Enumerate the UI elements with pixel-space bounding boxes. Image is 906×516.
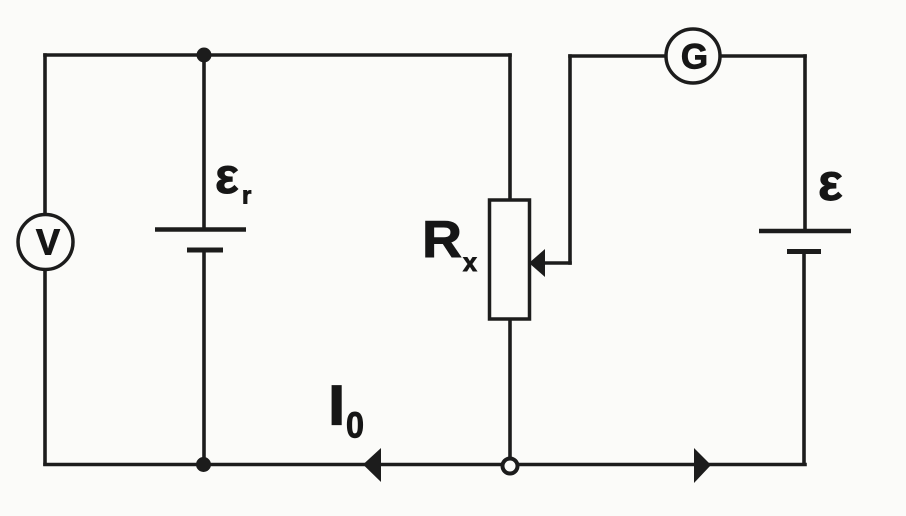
- voltmeter V circle: [18, 215, 73, 270]
- wire top-left horizontal: [45, 53, 510, 57]
- wire left vertical lower: [43, 269, 47, 464]
- wire wiper horizontal: [542, 261, 570, 265]
- battery Er long plate: [155, 227, 246, 232]
- wire right vertical lower: [802, 252, 806, 464]
- battery Er short plate: [187, 248, 223, 253]
- svg-text:ε: ε: [215, 148, 239, 204]
- resistor Rx body: [490, 200, 530, 319]
- svg-text:G: G: [681, 38, 708, 77]
- node dot top junction: [197, 48, 212, 63]
- resistor Rx wiper arrowhead: [529, 249, 545, 277]
- wire top-right horizontal left of G: [570, 54, 666, 58]
- battery E long plate: [759, 229, 851, 234]
- wire resistor bottom: [508, 319, 512, 459]
- current arrow right-pointing on bottom wire: [694, 448, 711, 483]
- svg-text:R: R: [422, 211, 462, 269]
- svg-text:I: I: [329, 374, 344, 436]
- svg-text:0: 0: [346, 405, 364, 446]
- wire middle branch upper: [202, 55, 206, 229]
- wire top-right horizontal right of G: [720, 54, 805, 58]
- svg-text:V: V: [36, 222, 60, 263]
- wire left vertical upper: [43, 55, 47, 215]
- node dot bottom junction: [196, 457, 211, 472]
- galvanometer G circle: [666, 29, 720, 83]
- current arrow left-pointing on bottom wire: [363, 448, 381, 482]
- wire middle branch lower: [202, 251, 206, 464]
- wire right vertical upper: [803, 56, 807, 230]
- wire resistor top: [508, 55, 512, 200]
- battery E short plate: [787, 249, 821, 254]
- svg-text:x: x: [463, 249, 477, 277]
- wire wiper vertical riser: [568, 56, 572, 263]
- node open ring bottom center: [503, 459, 518, 474]
- svg-text:ε: ε: [818, 154, 843, 212]
- wire bottom horizontal: [45, 463, 805, 467]
- svg-text:r: r: [242, 183, 251, 210]
